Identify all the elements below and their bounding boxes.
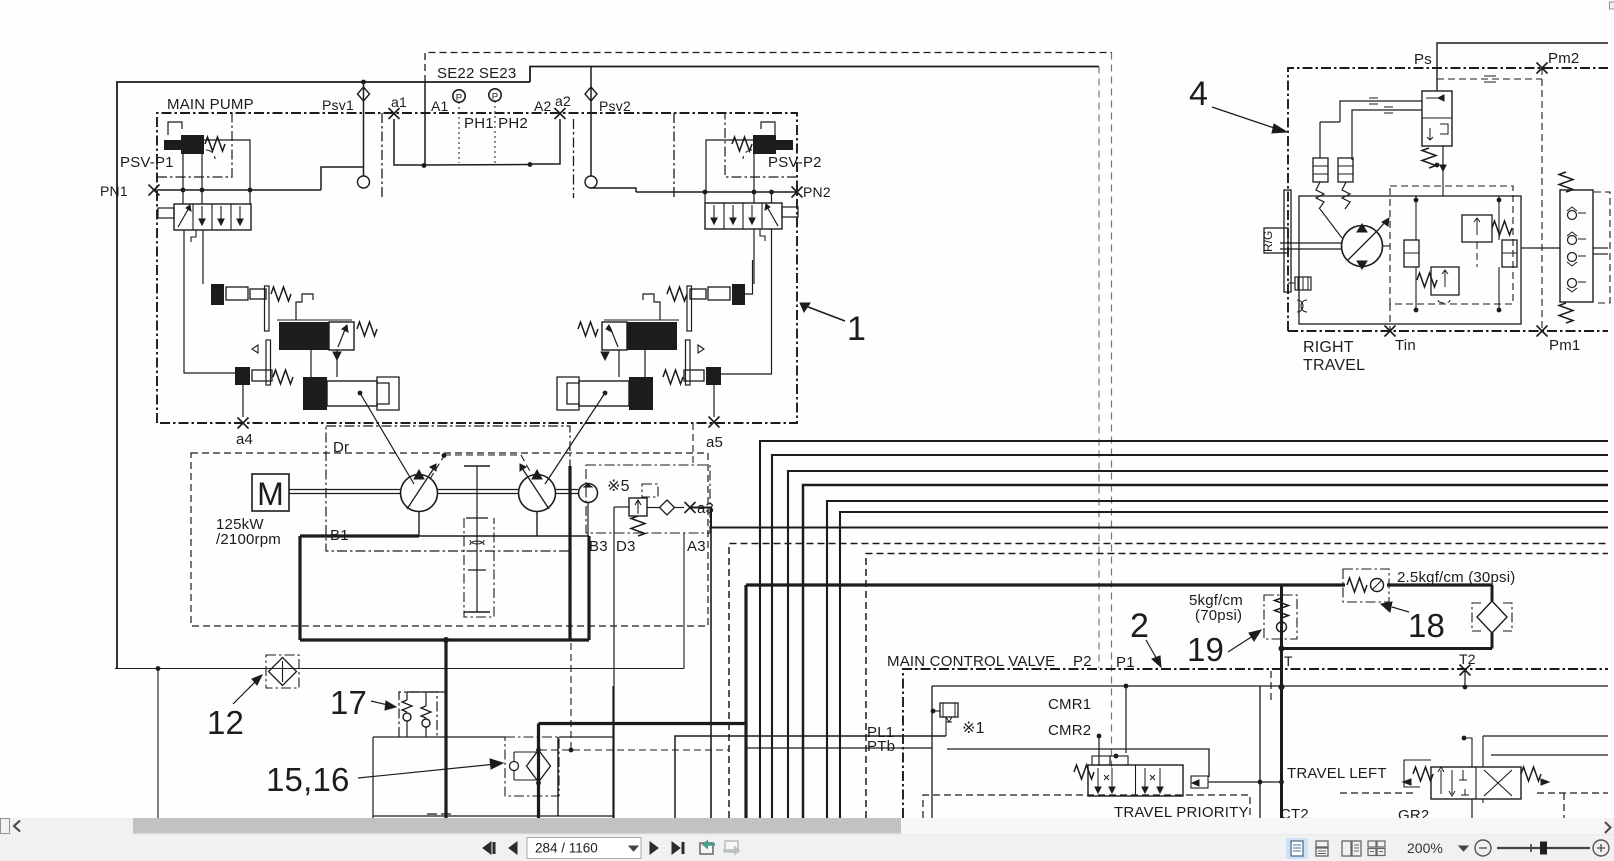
unit 4 dash-dot boundary RIGHT TRAVEL (1288, 63, 1608, 337)
label SE22 SE23 (437, 65, 516, 82)
wire MCV top manifold (932, 670, 1608, 818)
relief valve 18 2.5kgf (1343, 569, 1515, 602)
wire Psv1 link (321, 167, 364, 190)
label PSV-P2 (768, 154, 822, 171)
svg-text:M: M (257, 476, 284, 512)
label CT2 (1280, 806, 1309, 823)
wire counterbalance pilots (1320, 98, 1443, 196)
wire a1 drop (394, 119, 424, 165)
port a1 (389, 94, 407, 119)
wire CMR pilot lines (1097, 686, 1126, 766)
label Pm2 (1548, 50, 1579, 67)
label ※1 (962, 720, 985, 737)
wire main pressure line heavy (746, 583, 1492, 586)
port a2 (555, 93, 571, 119)
wire left regulator links (184, 230, 414, 484)
svg-text:T2: T2 (1459, 651, 1476, 667)
scrollbar right arrow (1605, 822, 1611, 833)
reducing valve ※1 (931, 703, 958, 736)
wire bundle line 3 (788, 471, 1608, 818)
valve left swash servo (158, 204, 251, 242)
zoom in button (1593, 840, 1609, 856)
label 2 with leader arrow (1130, 607, 1161, 667)
toolbar button previous view (700, 841, 715, 855)
valve counterbalance (1422, 91, 1452, 171)
dash-dot box D3 group (586, 465, 710, 533)
dash-dot box PSV-P2 (725, 113, 797, 177)
svg-text:R/G: R/G (1261, 231, 1275, 252)
node fold line B (scan crease) (1111, 53, 1113, 773)
svg-text:CMR1: CMR1 (1048, 696, 1091, 713)
check valve pair 17 (399, 692, 446, 737)
wire sensor bus (422, 162, 533, 168)
wire tank line T heavy (1279, 585, 1285, 818)
svg-text:/2100rpm: /2100rpm (216, 531, 281, 548)
wire bundle line 1 (760, 441, 1608, 818)
toolbar button prev page (509, 842, 517, 854)
svg-text:4: 4 (1189, 75, 1208, 113)
port PN1 (100, 183, 160, 199)
label T (1284, 653, 1293, 669)
wire drain dashed D3 (540, 533, 729, 752)
label MAIN PUMP (167, 96, 254, 113)
wire dashed top boundary of sensor section (425, 53, 1112, 83)
shuttle cylinder left (1404, 240, 1419, 267)
label A2 (534, 98, 552, 114)
dashed box travel priority (923, 795, 1250, 821)
label Pm1 (1549, 337, 1580, 354)
regulator left solenoid lower (235, 367, 293, 385)
svg-text:P: P (492, 92, 499, 103)
unit 2 dash-dot boundary MAIN CONTROL VALVE (903, 665, 1608, 819)
valve brake column (1559, 172, 1593, 323)
wire brake valve links (1521, 160, 1608, 254)
wire B1 B3 heavy loop (300, 466, 589, 643)
wire bundle line 2 (772, 455, 1608, 818)
regulator left main spool (277, 320, 377, 350)
svg-text:T: T (1284, 653, 1293, 669)
gearbox R/G (1261, 228, 1288, 253)
wire PN2 bus (636, 190, 797, 195)
label T2 (1459, 651, 1476, 667)
svg-text:a2: a2 (555, 93, 571, 109)
svg-text:Tin: Tin (1395, 337, 1416, 354)
svg-text:2.5kgf/cm (30psi): 2.5kgf/cm (30psi) (1397, 569, 1515, 586)
svg-text:A3: A3 (687, 538, 706, 555)
svg-text:19: 19 (1187, 631, 1224, 668)
wire inner dash-dot steps (382, 113, 674, 198)
svg-text:D3: D3 (616, 538, 636, 555)
wire dashed stub below border (1270, 671, 1272, 700)
svg-text:PH1 PH2: PH1 PH2 (464, 115, 528, 132)
svg-text:MAIN PUMP: MAIN PUMP (167, 96, 254, 113)
svg-text:Pm1: Pm1 (1549, 337, 1580, 354)
toolbar page number box 284 / 1160 (527, 838, 641, 859)
unit 1 dash-dot boundary MAIN PUMP (157, 113, 797, 423)
node fold line A (scan crease) (1098, 67, 1100, 669)
wire right regulator links (545, 229, 772, 484)
valve travel priority (1074, 754, 1208, 796)
brake plate (1284, 190, 1291, 292)
svg-text:12: 12 (207, 704, 244, 741)
orifice Psv2 (585, 67, 631, 189)
vertical scrollbar top box (1610, 2, 1614, 9)
svg-text:PSV-P1: PSV-P1 (120, 154, 174, 171)
svg-text:PN1: PN1 (100, 183, 128, 199)
zoom out button (1475, 840, 1491, 856)
pilot group solid box (373, 686, 613, 818)
toolbar button next page (650, 842, 658, 854)
svg-text:(70psi): (70psi) (1195, 607, 1242, 624)
wire bundle line 6 (840, 512, 1608, 818)
svg-text:TRAVEL: TRAVEL (1303, 357, 1365, 374)
motor inner dashed box (1390, 186, 1513, 304)
label MAIN CONTROL VALVE P2 P1 (887, 653, 1135, 671)
pressure sensor SE22 (453, 90, 465, 104)
regulator right feedback lever (686, 286, 705, 385)
label CMR1 CMR2 (1048, 696, 1091, 739)
motor inner solid box (1299, 196, 1521, 324)
svg-text:2: 2 (1130, 607, 1149, 645)
filter 15 16 pilot filter with bypass (505, 737, 559, 796)
label PH1 PH2 (464, 115, 528, 132)
regulator right feedback solenoid upper (667, 284, 745, 305)
regulator right main spool (578, 320, 679, 350)
label Ps (1414, 51, 1432, 68)
svg-text:PN2: PN2 (803, 184, 831, 200)
pump P2 variable (519, 464, 556, 512)
svg-text:Psv1: Psv1 (322, 97, 354, 113)
svg-text:P2: P2 (1073, 653, 1092, 670)
svg-text:P1: P1 (1116, 654, 1135, 671)
svg-text:A1: A1 (431, 98, 449, 114)
regulator left pilot bracket (296, 294, 313, 320)
scrollbar left corner box (1, 819, 10, 834)
dash-dot pump housing Dr box (326, 426, 570, 551)
wire Psv2 link (591, 188, 636, 192)
svg-text:※1: ※1 (962, 720, 985, 737)
svg-text:P: P (456, 93, 463, 104)
filter screen a3 (647, 500, 684, 515)
label 15,16 with leader arrow (266, 759, 503, 798)
viewer chrome background (0, 818, 1614, 861)
pressure sensor SE23 (489, 89, 501, 103)
wire PTb line (746, 747, 932, 749)
label 12 with leader arrow (207, 675, 262, 741)
relief valve 19 5kgf (1189, 592, 1297, 639)
orifice Psv1 (322, 80, 370, 188)
label 17 with leader arrow (330, 684, 396, 721)
wire Pm2 dashed pilot (1437, 68, 1542, 331)
label 18 with leader arrow (1381, 602, 1445, 644)
label PL1 PTb (867, 724, 895, 755)
svg-text:B3: B3 (589, 538, 608, 555)
servo piston left (303, 377, 399, 410)
label Tin (1395, 337, 1416, 354)
svg-text:a4: a4 (236, 431, 253, 448)
solenoid brake release (1288, 277, 1311, 312)
shuttle cylinder right (1502, 240, 1517, 267)
zoom slider (1497, 842, 1590, 855)
wire sensor leads (425, 82, 495, 165)
layout button single page active (1286, 838, 1308, 859)
gear pump P3 (579, 484, 598, 503)
dash-dot box PSV-P1 (157, 113, 232, 177)
regulator left feedback lever (252, 286, 271, 385)
label RIGHT TRAVEL (1303, 339, 1365, 374)
wire bundle line 4 (803, 485, 1608, 818)
label PSV-P1 (120, 154, 174, 171)
wire outer solid frame of main pump circuit (117, 67, 1099, 669)
svg-text:200%: 200% (1407, 840, 1443, 856)
svg-text:SE22 SE23: SE22 SE23 (437, 65, 516, 82)
label A1 (431, 98, 449, 114)
scrollbar collapse chevron (14, 821, 20, 832)
wire bundle dashed line 7 (729, 544, 1608, 819)
svg-text:a5: a5 (706, 434, 723, 451)
wire bundle dashed line 8 (866, 554, 1608, 819)
wire travel priority links (1208, 780, 1284, 785)
relief valve D3 (※5) (588, 478, 658, 818)
svg-text:18: 18 (1408, 607, 1445, 644)
filter 12 pilot line filter (266, 655, 299, 688)
label TRAVEL LEFT (1287, 765, 1387, 782)
label GR2 clipped (1398, 807, 1429, 824)
valve right swash servo (705, 203, 798, 241)
label 4 with leader arrow (1189, 75, 1287, 133)
dashed engine compartment box (191, 453, 708, 626)
wire A3 line (690, 508, 1608, 819)
wire valve2 pilots (705, 192, 772, 203)
svg-text:Psv2: Psv2 (599, 98, 631, 114)
labels B3 D3 A3 (589, 538, 706, 555)
zoom percent label 200% (1407, 840, 1468, 856)
wire drive shaft (289, 490, 578, 494)
wire lines to control valve left (558, 736, 946, 818)
wire T return heavy (1282, 647, 1493, 650)
wire PSV-P2 output (706, 140, 754, 192)
wire travel left pilots (1404, 736, 1608, 818)
wire tank return line (115, 533, 684, 818)
wire motor internals (1382, 163, 1501, 313)
toolbar button last page (672, 842, 685, 854)
wire pilot line to travel priority (947, 749, 1209, 777)
wire bundle line 5 (827, 501, 1608, 818)
wire PSV-P1 output (183, 140, 250, 190)
svg-text:17: 17 (330, 684, 367, 721)
label 19 with leader arrow (1187, 630, 1261, 668)
wire unit4 bottom bus (1299, 304, 1521, 331)
valve motor relief lower (1417, 267, 1459, 303)
port a3 (685, 500, 715, 517)
layout button continuous (1316, 841, 1328, 856)
regulator left feedback solenoid upper (211, 284, 291, 305)
port a4 (236, 385, 253, 448)
toolbar button first page (483, 842, 496, 854)
port PN2 (792, 184, 831, 200)
layout button facing (1342, 841, 1361, 856)
motor right travel (1320, 209, 1389, 269)
wire a2 drop (530, 119, 560, 164)
layout button continuous facing (1368, 841, 1385, 856)
wire PN1 bus (154, 188, 321, 193)
svg-text:CMR2: CMR2 (1048, 722, 1091, 739)
regulator right solenoid lower (663, 367, 721, 385)
wire Ps supply (1437, 43, 1608, 91)
regulator right pilot bracket (643, 294, 660, 320)
svg-text:15,16: 15,16 (266, 761, 350, 798)
svg-text:Pm2: Pm2 (1548, 50, 1579, 67)
svg-text:Ps: Ps (1414, 51, 1432, 68)
svg-text:A2: A2 (534, 98, 552, 114)
wire pilot pump supply heavy (446, 585, 746, 818)
svg-text:MAIN CONTROL VALVE: MAIN CONTROL VALVE (887, 653, 1055, 670)
pump P1 variable (401, 464, 438, 512)
relief pair travel motor (1313, 158, 1353, 209)
solenoid PSV-P1 (164, 122, 225, 159)
dashed box travel left (1340, 793, 1608, 818)
label 1 with leader arrow (800, 303, 866, 348)
svg-text:284 / 1160: 284 / 1160 (535, 841, 598, 856)
svg-text:Dr: Dr (333, 439, 349, 456)
svg-text:TRAVEL LEFT: TRAVEL LEFT (1287, 765, 1387, 782)
svg-text:1: 1 (847, 310, 866, 348)
motor M 125kW (216, 474, 289, 548)
svg-text:※5: ※5 (607, 478, 630, 495)
valve motor relief upper (1462, 215, 1512, 267)
servo piston right (557, 377, 653, 410)
wire valve1 pilots (183, 190, 250, 204)
port a5 (706, 385, 723, 451)
toolbar button next view disabled (723, 841, 740, 855)
coupling gearbox (464, 466, 494, 617)
svg-text:PTb: PTb (867, 738, 895, 755)
horizontal scrollbar thumb (133, 818, 1604, 834)
valve travel left (1403, 767, 1549, 799)
svg-text:a1: a1 (391, 94, 407, 110)
wire case drain dashed (430, 453, 531, 479)
svg-text:PSV-P2: PSV-P2 (768, 154, 822, 171)
svg-text:RIGHT: RIGHT (1303, 339, 1354, 356)
strainer T2 (1472, 585, 1512, 649)
dashed box brake valve (1594, 192, 1610, 303)
wire a5 drain (692, 423, 694, 465)
wire motor shaft (1280, 243, 1342, 249)
solenoid PSV-P2 (732, 122, 793, 159)
